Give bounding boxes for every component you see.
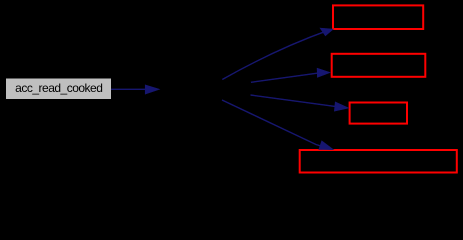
svg-text:acc_read_cooked: acc_read_cooked (15, 81, 102, 95)
